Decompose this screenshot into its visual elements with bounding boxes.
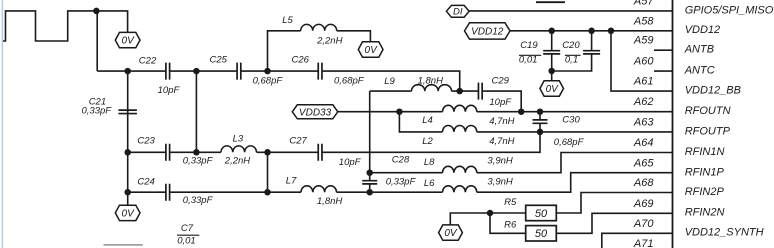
capacitor C24 — [166, 184, 170, 201]
label C25 — [210, 54, 228, 65]
value 0,68pF (C26) — [334, 76, 365, 87]
wire C22 row seg1 — [97, 70, 166, 72]
label L9 — [384, 76, 395, 87]
pin number A57 — [633, 0, 654, 7]
wire C28 bottom to L7 row — [369, 184, 371, 192]
label C26 — [292, 55, 310, 66]
node C29-L4 junction — [518, 108, 525, 115]
svg-text:0V: 0V — [122, 209, 136, 220]
bar C7 — [177, 234, 199, 236]
label L2 — [422, 136, 433, 147]
wire L9 row start corner — [370, 90, 412, 92]
node C28 bottom junction — [366, 189, 373, 196]
resistor R5 — [526, 205, 557, 220]
label L7 — [286, 176, 297, 187]
inductor L4 — [443, 105, 477, 111]
wire C25-C26 row seg3 — [241, 70, 318, 72]
node C23 right junction — [193, 149, 200, 156]
label L5 — [282, 15, 293, 26]
svg-text:VDD12: VDD12 — [685, 24, 720, 36]
svg-text:A69: A69 — [633, 198, 654, 210]
wire DI to GPIO5 pin A57 — [469, 10, 672, 12]
node C20 top junction — [588, 28, 595, 35]
svg-text:0,68pF: 0,68pF — [554, 137, 585, 148]
wire C30 bottom stub — [539, 123, 541, 132]
ground 0V flag top-left — [115, 32, 140, 47]
pin number A65 — [633, 158, 654, 170]
node C19-C20 ground junction — [548, 68, 555, 75]
svg-text:50: 50 — [535, 208, 548, 220]
svg-text:L9: L9 — [384, 76, 395, 87]
capacitor C21 — [118, 110, 137, 113]
power flag VDD12 — [465, 23, 511, 39]
pin name RFOUTP — [685, 125, 731, 137]
svg-text:0,01: 0,01 — [177, 235, 196, 246]
inductor L8 — [443, 166, 477, 172]
svg-text:L3: L3 — [233, 134, 244, 145]
wire C26 output to L9 corner — [322, 71, 460, 91]
wire L8 row from C28 junction — [370, 172, 443, 174]
capacitor C26 — [318, 63, 322, 80]
value 0,33pF (C24) — [183, 195, 214, 206]
value 0,33pF (C23) — [183, 156, 214, 167]
svg-text:RFIN1P: RFIN1P — [685, 166, 725, 178]
svg-text:L2: L2 — [422, 136, 433, 147]
svg-text:RFOUTN: RFOUTN — [685, 105, 731, 117]
node L3-C27 junction — [264, 149, 271, 156]
pin number A61 — [633, 76, 654, 88]
wire VDD33 to L4 — [338, 111, 443, 113]
ground 0V flag bottom-left — [115, 205, 140, 220]
svg-text:A62: A62 — [633, 96, 654, 108]
node L3-C24 junction — [264, 189, 271, 196]
wire C29 to L4 row — [482, 91, 521, 112]
svg-text:C20: C20 — [562, 40, 580, 51]
wire L9 to C29 — [452, 90, 479, 92]
svg-text:3,9nH: 3,9nH — [487, 156, 512, 167]
svg-text:0,33pF: 0,33pF — [183, 195, 214, 206]
wire R6 input branch — [490, 213, 526, 233]
svg-text:C23: C23 — [137, 136, 155, 147]
wire square-wave net to 0V (top-left) — [3, 11, 128, 41]
label R6 — [504, 220, 517, 231]
ground 0V flag after L5 — [358, 42, 383, 57]
pin number A68 — [633, 177, 654, 189]
svg-text:RFOUTP: RFOUTP — [685, 125, 731, 137]
wire L9-left vertical to C28 — [369, 91, 371, 181]
signal flag DI — [446, 5, 469, 17]
wire C19 bottom to 0V junction — [551, 54, 553, 81]
label L8 — [424, 157, 435, 168]
svg-text:A57: A57 — [633, 0, 654, 7]
value 4,7nH (L2) — [489, 136, 514, 147]
wire L8 jog up to RFIN1N pin A64 — [477, 153, 673, 173]
svg-text:L8: L8 — [424, 157, 435, 168]
svg-text:0V: 0V — [365, 45, 379, 56]
ground 0V flag at R5 R6 — [439, 225, 463, 240]
svg-text:0,33pF: 0,33pF — [183, 156, 214, 167]
svg-text:C22: C22 — [139, 55, 157, 66]
svg-text:A59: A59 — [633, 35, 654, 47]
svg-text:VDD12_BB: VDD12_BB — [685, 85, 741, 97]
wire C24 row seg1 — [128, 191, 166, 193]
svg-text:A58: A58 — [633, 15, 654, 27]
svg-text:4,7nH: 4,7nH — [489, 116, 514, 127]
capacitor C20 — [583, 51, 600, 54]
svg-text:C28: C28 — [392, 155, 410, 166]
svg-text:ANTB: ANTB — [684, 44, 714, 56]
svg-text:R6: R6 — [504, 220, 517, 231]
svg-text:0V: 0V — [444, 228, 458, 239]
svg-text:DI: DI — [453, 7, 463, 18]
pin name VDD12_SYNTH — [685, 227, 764, 239]
svg-text:L5: L5 — [282, 15, 293, 26]
inductor L7 — [301, 186, 337, 192]
label L4 — [422, 115, 433, 126]
label C23 — [137, 136, 155, 147]
svg-text:0,01: 0,01 — [519, 54, 538, 65]
label C29 — [492, 75, 510, 86]
label C19 — [520, 40, 538, 51]
pin number A58 — [633, 15, 654, 27]
svg-text:2,2nH: 2,2nH — [316, 36, 342, 47]
svg-text:C7: C7 — [181, 223, 194, 234]
svg-text:R5: R5 — [504, 197, 517, 208]
pin stub ANTB A59 — [654, 49, 673, 51]
svg-text:L4: L4 — [422, 115, 433, 126]
wire L5 branch riser — [268, 31, 301, 71]
node C24 row left junction — [124, 189, 131, 196]
value 0,1 (C20) — [565, 54, 578, 65]
wire fragment top edge — [536, 1, 565, 3]
capacitor C28 — [362, 181, 377, 184]
wire C30 top stub — [539, 112, 541, 120]
value 50 (R5) — [535, 208, 548, 220]
node C22-C21 junction — [124, 68, 131, 75]
wire L6 jog up to RFIN1P pin A65 — [477, 173, 673, 193]
wire C24-L7 seg — [170, 191, 302, 193]
value 10pF (C27) — [339, 157, 362, 168]
svg-text:ANTC: ANTC — [684, 65, 715, 77]
wire L3-C27 seg — [257, 151, 319, 153]
capacitor C23 — [166, 144, 170, 161]
pin name GPIO5/SPI_MISO — [685, 4, 774, 16]
svg-text:A68: A68 — [633, 177, 654, 189]
svg-text:C29: C29 — [492, 75, 510, 86]
value 10pF (C22) — [158, 85, 181, 96]
pin name VDD12_BB — [685, 85, 741, 97]
svg-text:0V: 0V — [546, 84, 560, 95]
node C22-right junction — [193, 68, 200, 75]
svg-text:4,7nH: 4,7nH — [489, 136, 514, 147]
bar C20 — [565, 54, 581, 56]
value 0,33pF (C28) — [386, 176, 417, 187]
value 0,01 (C19) — [519, 54, 538, 65]
pin number A69 — [633, 198, 654, 210]
node L5 junction — [264, 68, 271, 75]
svg-text:10pF: 10pF — [158, 85, 181, 96]
wire vertical L3row-C24row — [267, 152, 269, 192]
capacitor C22 — [166, 63, 170, 80]
svg-text:0,68pF: 0,68pF — [253, 75, 284, 86]
capacitor C27 — [318, 144, 322, 161]
svg-text:50: 50 — [535, 228, 548, 240]
value 3,9nH (L8) — [487, 156, 512, 167]
inductor L9 — [412, 85, 452, 91]
window left edge strip — [2, 0, 4, 248]
node C23 row left junction — [124, 149, 131, 156]
label L6 — [424, 178, 435, 189]
svg-text:RFIN2N: RFIN2N — [685, 207, 725, 219]
wire C23-L3 seg — [170, 151, 222, 153]
svg-text:C30: C30 — [562, 115, 580, 126]
svg-text:A61: A61 — [633, 76, 654, 88]
svg-text:1,8nH: 1,8nH — [418, 75, 443, 86]
pin number A64 — [633, 137, 654, 149]
label C22 — [139, 55, 157, 66]
label C30 — [562, 115, 580, 126]
pin name RFIN1N — [685, 146, 725, 158]
label L3 — [233, 134, 244, 145]
value 2,2nH (L5) — [316, 36, 342, 47]
label C21 — [89, 96, 106, 107]
wire R6 output jog up to RFIN2N pin A69 — [556, 213, 672, 233]
wire L2 branch — [399, 112, 442, 132]
inductor L3 — [221, 146, 257, 152]
value 0,68pF (C25) — [253, 75, 284, 86]
svg-text:1,8nH: 1,8nH — [317, 196, 342, 207]
label R5 — [504, 197, 517, 208]
svg-text:0V: 0V — [122, 36, 136, 47]
svg-text:0,68pF: 0,68pF — [334, 76, 365, 87]
node R5-R6 input junction — [487, 210, 494, 217]
svg-text:C25: C25 — [210, 54, 228, 65]
wire C22 row seg2 — [170, 70, 238, 72]
node L4-L2 junction — [396, 108, 403, 115]
node C28 top junction — [366, 169, 373, 176]
svg-text:A63: A63 — [633, 116, 654, 128]
wire VDD12 to VDD12_BB pin A61 — [611, 31, 673, 91]
node C30 top junction — [537, 108, 544, 115]
value 1,8nH (L7) — [317, 196, 342, 207]
wire L5 to 0V — [337, 31, 371, 42]
wire C19 top stub — [551, 31, 553, 51]
wire L7-L6 seg — [337, 191, 443, 193]
pin number A59 — [633, 35, 654, 47]
svg-text:L7: L7 — [286, 176, 297, 187]
wire vertical C22right-C23right — [195, 71, 197, 152]
svg-text:0,33pF: 0,33pF — [82, 106, 113, 117]
svg-text:VDD33: VDD33 — [299, 107, 332, 118]
svg-text:A65: A65 — [633, 158, 654, 170]
pin name ANTB — [684, 44, 714, 56]
svg-text:VDD12_SYNTH: VDD12_SYNTH — [685, 227, 764, 239]
node L9-C29 junction — [456, 88, 463, 95]
pin name RFIN1P — [685, 166, 725, 178]
pin name VDD12 — [685, 24, 720, 36]
wire C20 top stub — [591, 31, 593, 51]
node C30 bottom junction — [537, 129, 544, 136]
svg-text:VDD12: VDD12 — [471, 27, 504, 38]
pin number A70 — [633, 218, 654, 230]
value 50 (R6) — [535, 228, 548, 240]
label C27 — [289, 135, 307, 146]
capacitor C30 — [533, 120, 548, 123]
wire L2 to RFOUTP pin A63 — [477, 131, 673, 133]
label C24 — [137, 176, 154, 187]
value 1,8nH (L9) — [418, 75, 443, 86]
pin number A60 — [633, 56, 654, 68]
svg-text:A64: A64 — [633, 137, 654, 149]
wire C27 output riser to L2 row — [322, 132, 540, 152]
value 3,9nH (L6) — [487, 177, 512, 188]
svg-text:A60: A60 — [633, 56, 654, 68]
resistor R6 — [526, 226, 557, 241]
value 0,33pF (C21) — [82, 106, 113, 117]
capacitor C29 — [478, 83, 482, 100]
wire VDD12 row — [510, 30, 673, 32]
pin name ANTC — [684, 65, 715, 77]
pin number A63 — [633, 116, 654, 128]
wire VDD12_SYNTH pin A70 from below — [602, 233, 673, 248]
svg-text:10pF: 10pF — [339, 157, 362, 168]
value 0,01 (C7) — [177, 235, 196, 246]
svg-text:GPIO5/SPI_MISO: GPIO5/SPI_MISO — [685, 4, 774, 16]
inductor L2 — [443, 126, 477, 132]
label C28 — [392, 155, 410, 166]
pin name RFIN2P — [685, 186, 725, 198]
capacitor C25 — [237, 63, 241, 80]
power flag VDD33 — [292, 105, 338, 119]
pin stub ANTC A60 — [654, 70, 673, 72]
wire R5 output jog up to RFIN2P pin A68 — [556, 193, 672, 214]
label C20 — [562, 40, 580, 51]
pin name RFOUTN — [685, 105, 731, 117]
svg-text:L6: L6 — [424, 178, 435, 189]
wire left column down from junction — [96, 11, 98, 71]
wire 0V to R5 input — [450, 213, 525, 225]
pin name RFIN2N — [685, 207, 725, 219]
svg-text:0,33pF: 0,33pF — [386, 176, 417, 187]
bar C19 — [519, 54, 541, 56]
wire shunt column x128 — [127, 71, 129, 205]
capacitor C19 — [543, 51, 560, 54]
label C7 — [181, 223, 194, 234]
value 10pF (C29) — [489, 97, 512, 108]
svg-text:C26: C26 — [292, 55, 310, 66]
svg-text:C19: C19 — [520, 40, 538, 51]
inductor L5 — [301, 24, 337, 30]
svg-text:A71: A71 — [633, 238, 654, 248]
node A61 riser junction — [608, 28, 615, 35]
svg-text:RFIN2P: RFIN2P — [685, 186, 725, 198]
wire C23 row seg1 — [128, 151, 166, 153]
value 4,7nH (L4) — [489, 116, 514, 127]
wire L4 to RFOUTN pin A62 — [477, 111, 673, 113]
svg-text:2,2nH: 2,2nH — [224, 156, 250, 167]
pin number A62 — [633, 96, 654, 108]
wire fragment bottom-left — [104, 244, 143, 246]
svg-text:RFIN1N: RFIN1N — [685, 146, 725, 158]
value 2,2nH (L3) — [224, 156, 250, 167]
value 0,68pF (C30) — [554, 137, 585, 148]
svg-text:A70: A70 — [633, 218, 654, 230]
wire C20 bottom to ground junction — [552, 54, 592, 71]
node C19 top junction — [548, 28, 555, 35]
svg-text:10pF: 10pF — [489, 97, 512, 108]
inductor L6 — [443, 186, 477, 192]
node junction top-left — [93, 8, 100, 15]
ground 0V flag below C19 C20 — [540, 81, 564, 96]
pin number A71 — [633, 238, 654, 248]
IC body left edge U1 — [672, 0, 674, 248]
svg-text:0,1: 0,1 — [565, 54, 578, 65]
svg-text:C27: C27 — [289, 135, 307, 146]
svg-text:C24: C24 — [137, 176, 154, 187]
svg-text:3,9nH: 3,9nH — [487, 177, 512, 188]
